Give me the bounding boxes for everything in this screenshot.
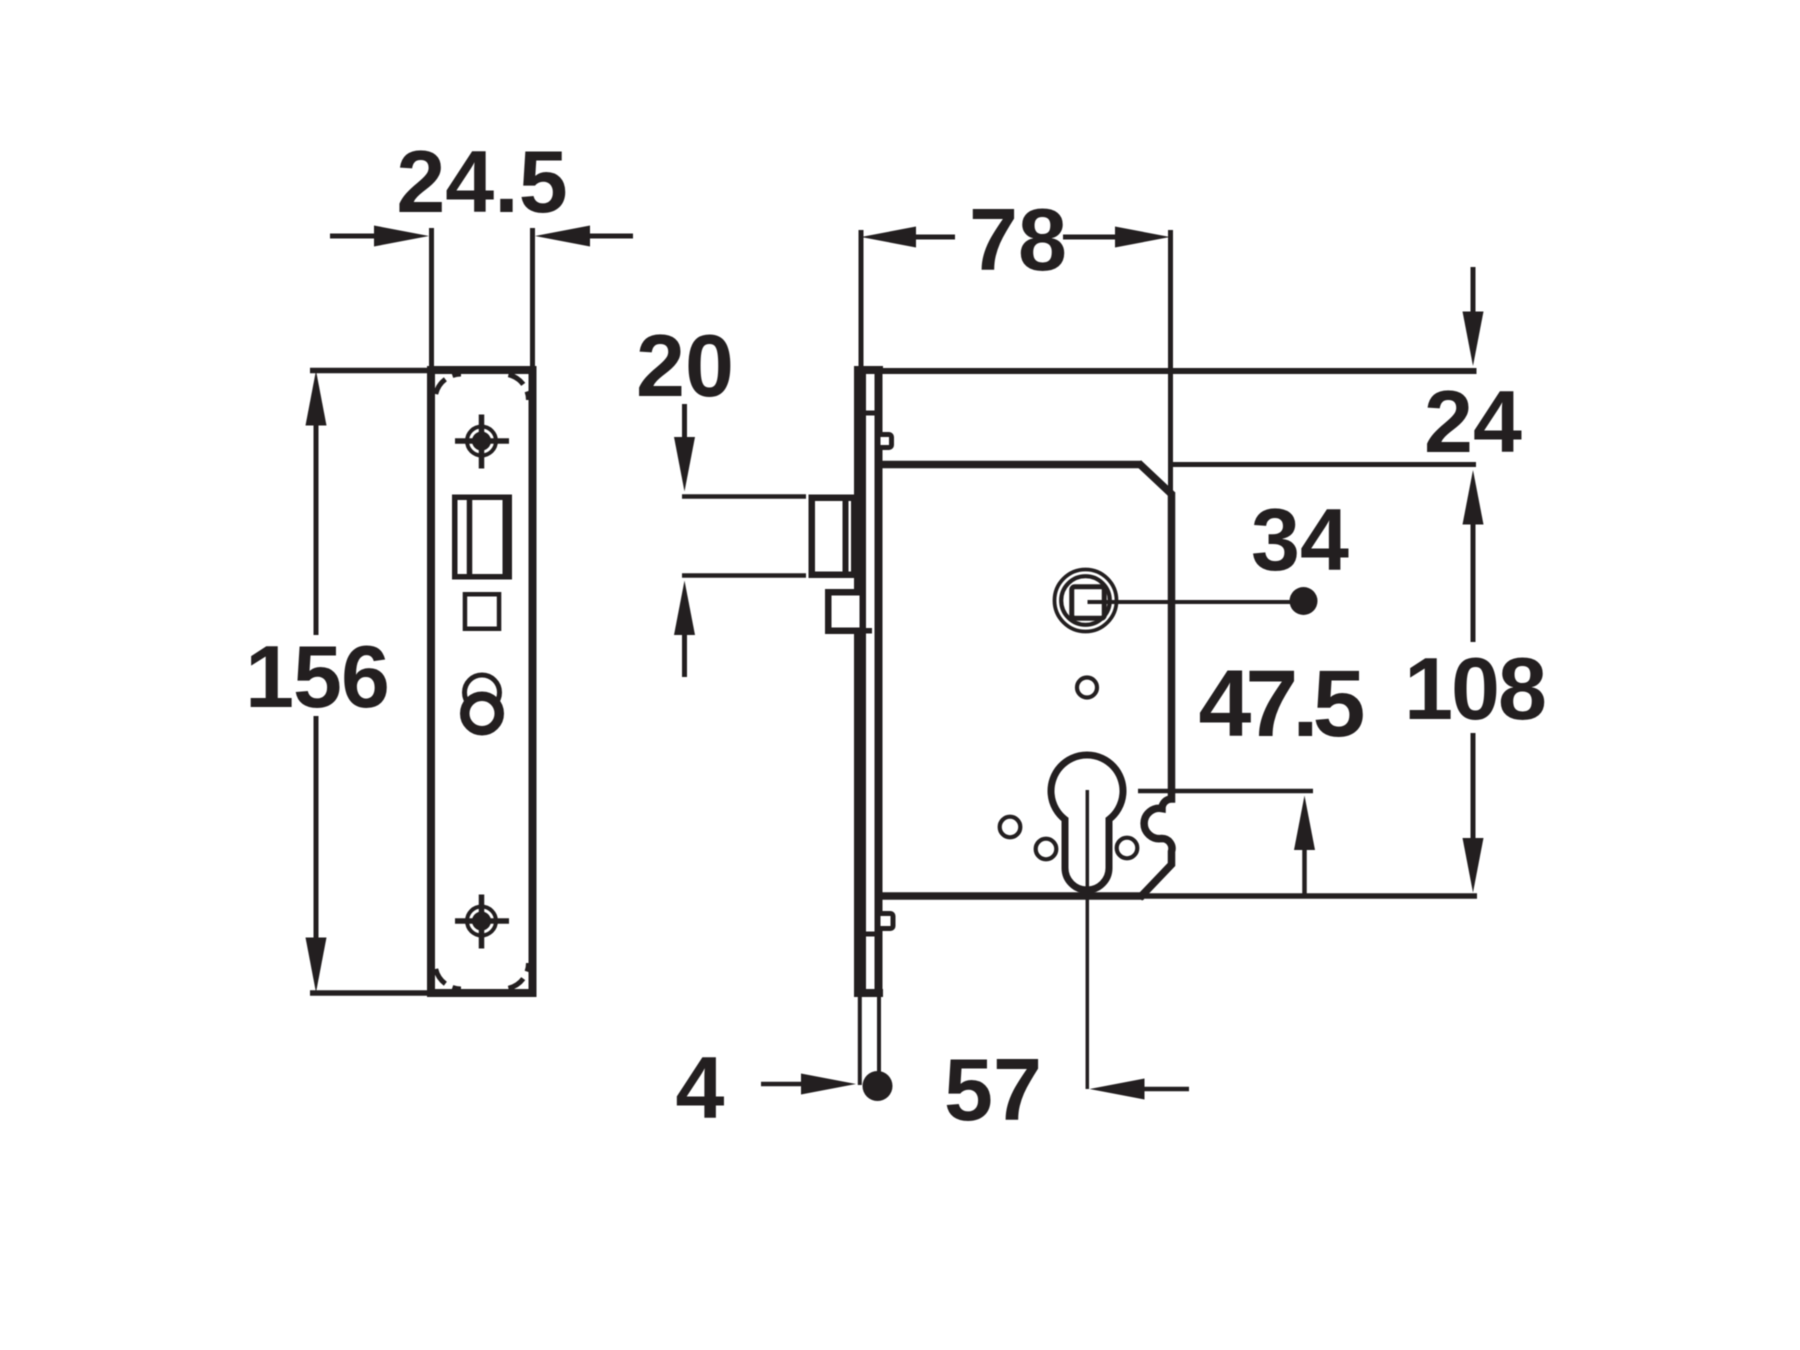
svg-text:4: 4 <box>676 1038 725 1137</box>
small circle below-right of cylinder <box>1117 838 1138 859</box>
case bottom extension line to 108 dimension <box>1144 893 1477 899</box>
dimension 4 arrow <box>761 1074 856 1095</box>
dimension 108 up arrow <box>1463 470 1484 642</box>
dimension 156 line and arrows <box>306 371 327 993</box>
dimension 4 extension line right <box>877 997 881 1072</box>
case mounting tab top <box>878 435 892 448</box>
backplate edge view: front bar <box>854 366 866 997</box>
follower square spindle hub <box>1055 570 1117 632</box>
dimension 47.5 up arrow <box>1294 796 1315 894</box>
svg-text:34: 34 <box>1251 490 1349 589</box>
screw hole crosshair top <box>455 415 509 469</box>
svg-text:47.5: 47.5 <box>1199 651 1364 757</box>
screw hole crosshair bottom <box>455 895 509 949</box>
faceplate rounded-corner dashes top-right <box>503 374 529 400</box>
dimension 20 extension line top <box>682 494 806 499</box>
svg-text:78: 78 <box>969 190 1067 289</box>
svg-text:24: 24 <box>1424 372 1522 471</box>
dimension 20 extension line bottom <box>682 573 806 578</box>
dimension 78 right arrow <box>1063 227 1170 248</box>
backplate channel tick upper <box>864 411 875 416</box>
euro profile cylinder hole <box>1051 755 1123 890</box>
small circle below-left of cylinder <box>1036 839 1057 860</box>
dimension 47.5 horizontal reference line <box>1138 789 1313 794</box>
faceplate rounded-corner dashes bottom-left <box>435 963 461 989</box>
dimension 24.5 right arrow <box>535 226 633 247</box>
backplate edge view: top cap <box>854 366 883 374</box>
svg-text:57: 57 <box>944 1040 1042 1139</box>
case mounting tab bottom <box>878 914 893 929</box>
faceplate rounded-corner dashes top-left <box>435 374 461 400</box>
svg-text:24.5: 24.5 <box>396 132 567 231</box>
faceplate front view outline <box>431 370 533 993</box>
lock case top edge <box>879 461 1141 469</box>
dimension 156 extension line top <box>310 368 427 374</box>
case top extension line to 24/108 dimension <box>1172 462 1476 467</box>
dimension 20 down arrow <box>674 404 695 492</box>
faceplate rounded-corner dashes bottom-right <box>503 963 529 989</box>
cylinder centre line <box>1086 790 1090 1089</box>
latch bolt front view <box>455 497 510 577</box>
dimension 57 arrow <box>1090 1079 1190 1100</box>
backplate edge view: bottom cap <box>854 989 883 997</box>
deadbolt square hole front view <box>465 594 499 629</box>
dimension 4 reference dot <box>863 1071 893 1101</box>
backplate top extension line to 24 dimension <box>883 368 1477 374</box>
dimension 4 extension line left <box>858 997 862 1085</box>
34 reference dot <box>1290 587 1318 615</box>
backplate channel tick at deadbolt <box>862 628 872 634</box>
deadbolt side view <box>828 592 863 631</box>
dimension 24 down arrow <box>1463 267 1484 366</box>
leader line from follower to 34 reference dot <box>1088 600 1291 604</box>
lock case bottom edge <box>879 892 1144 900</box>
dimension 78 extension line right <box>1168 230 1173 492</box>
lock case top-right bevel <box>1139 463 1173 495</box>
dimension 156 extension line bottom <box>310 990 427 996</box>
dimension 20 up arrow <box>674 581 695 678</box>
cylinder fixing hole (double circle) <box>465 675 500 731</box>
latch bolt side view <box>812 497 855 575</box>
dimension 78 left arrow <box>861 227 955 248</box>
svg-text:20: 20 <box>636 316 734 415</box>
svg-text:156: 156 <box>245 627 389 726</box>
dimension 108 down arrow <box>1463 733 1484 893</box>
svg-text:108: 108 <box>1404 639 1545 738</box>
small circle left of cylinder <box>1000 817 1021 838</box>
dimension 78 extension line left <box>859 230 864 366</box>
lock case front wall bar <box>875 366 883 997</box>
dimension 24.5 left arrow <box>330 226 429 247</box>
backplate channel tick lower <box>864 932 875 937</box>
dimension 24.5 extension line left <box>429 228 434 366</box>
dimension 24.5 extension line right <box>530 228 535 366</box>
small hole in case <box>1077 678 1097 698</box>
lock case right edge with cylinder notch and bottom bevel <box>1140 492 1172 898</box>
